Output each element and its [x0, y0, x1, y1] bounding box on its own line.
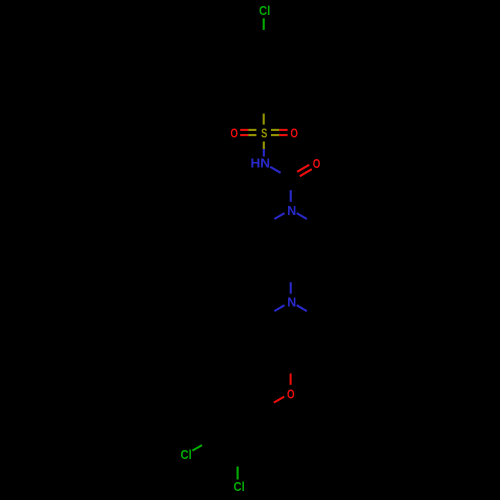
svg-text:O: O: [290, 125, 298, 140]
bond C4b-Cl2 green half: [192, 445, 202, 451]
bond N2-C2R blue half: [297, 305, 307, 311]
svg-text:S: S: [261, 126, 267, 141]
svg-text:Cl: Cl: [181, 447, 192, 462]
svg-text:N: N: [287, 295, 296, 310]
bond N2-C2L blue half: [274, 305, 284, 311]
bond C4p-Oeth red half: [290, 374, 292, 385]
bond Oeth-C1b red half: [274, 397, 284, 403]
bond S=O right olive half line2: [271, 134, 279, 136]
bond C4a-Cl1 green half: [263, 18, 265, 30]
svg-text:Cl: Cl: [234, 479, 245, 494]
bond N1-C2R blue half: [297, 213, 307, 219]
bond S=O right olive half line1: [271, 129, 279, 131]
bond S=O left red half line1: [240, 129, 248, 131]
bond S=O right red half line2: [279, 134, 287, 136]
svg-text:N: N: [287, 203, 296, 218]
bond Cam-N1 blue half: [290, 190, 292, 202]
bond Cam=Oam red half line2: [300, 169, 312, 176]
svg-text:HN: HN: [251, 156, 271, 171]
bond S=O left red half line2: [240, 134, 248, 136]
bond S-N blue half: [263, 149, 265, 157]
bond C4-N2 blue half: [290, 282, 292, 294]
bond C1a-S olive half: [263, 114, 265, 125]
bond Cam=Oam red half line1: [297, 165, 309, 172]
bond C3b-Cl3 green half: [237, 467, 239, 480]
svg-text:O: O: [313, 156, 321, 171]
svg-text:O: O: [230, 125, 238, 140]
svg-text:Cl: Cl: [259, 3, 270, 18]
bond S-N olive half: [263, 142, 265, 150]
bond N1-C2L blue half: [274, 213, 284, 219]
svg-text:O: O: [287, 387, 295, 402]
bond N-Cam blue half: [270, 167, 280, 173]
bond S=O right red half line1: [279, 129, 287, 131]
bond S=O left olive half line2: [248, 134, 256, 136]
bond S=O left olive half line1: [248, 129, 256, 131]
